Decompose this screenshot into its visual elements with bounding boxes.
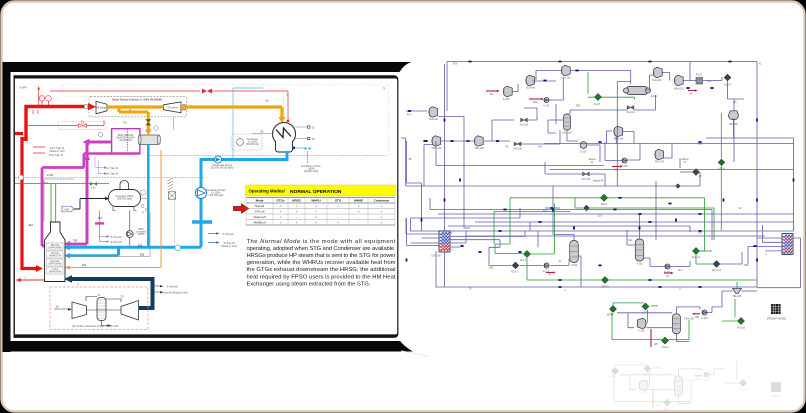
wire set line [613,303,648,323]
wire v102 btms [644,258,666,267]
svg-text:(Stand-by Unit): (Stand-by Unit) [49,150,65,153]
svg-text:✓: ✓ [380,204,382,208]
wire lng out 2 [450,231,466,243]
svg-text:Exchanger using steam extracte: Exchanger using steam extracted from the… [247,281,371,287]
svg-text:TEE-105: TEE-105 [732,296,742,298]
wire mid band 1 [424,172,700,186]
svg-text:TA2: TA2 [538,146,543,149]
svg-text:From Train #2: From Train #2 [104,167,119,170]
description paragraph [247,239,396,288]
cyan makeup line [233,88,263,159]
svg-text:SET-4: SET-4 [601,204,608,206]
svg-text:Adamp: Adamp [681,158,689,161]
pump P-104 [665,264,670,269]
pump P-100 [622,158,627,163]
wire left rail 2 [464,117,470,229]
wire green drop2 [696,255,713,265]
stabilizer column CPrs-100 [672,314,680,334]
svg-text:SPRDSHT: SPRDSHT [771,396,783,398]
header tee (cyan) [192,220,212,223]
GTG compressor [72,302,87,319]
set block SET-8 SET-8 [718,159,725,166]
extraction pipe (orange) [119,107,148,130]
wire to p101 [684,62,697,81]
red bottom blowdown stub [16,279,45,281]
green adjust AGu-2 AGu-2 [661,337,668,344]
HM return riser (magenta) [86,142,89,244]
svg-text:STG: STG [335,199,342,203]
compressor K-100 [503,86,512,96]
GTG dashed box [50,287,148,330]
svg-text:✓: ✓ [315,221,317,225]
STG dashed package box [89,97,187,117]
svg-text:To Train #2: To Train #2 [166,286,178,289]
svg-text:5B: 5B [409,159,412,161]
wire rcy2 out [520,264,544,266]
svg-text:PA2: PA2 [518,143,523,146]
svg-text:MIX-130: MIX-130 [562,78,571,80]
wire left rail 4 [407,141,440,245]
wire contactor feed [548,120,564,133]
expander K-102 K-102 [637,318,646,328]
svg-text:TG6: TG6 [453,64,458,66]
svg-text:(WHRU/HP): (WHRU/HP) [49,271,62,273]
svg-text:PA: PA [506,146,509,149]
svg-text:WHRU: WHRU [311,199,320,203]
wire e100 out [587,145,600,162]
tee splitter TEE-105 TEE-105 [733,288,742,293]
svg-text:VA: VA [611,313,614,316]
compressor TEG-107 TEG-107 [655,149,664,159]
svg-text:(45,000 kW): (45,000 kW) [119,140,132,142]
separator V-102 V-102 [635,239,644,261]
svg-text:LNG-100: LNG-100 [431,256,441,258]
svg-text:2C: 2C [261,132,264,134]
wire contactor btms [567,130,578,141]
svg-text:Mode: Mode [256,199,264,203]
wire rcy2 feed [450,231,538,265]
ghost reflection of stabilizer section [609,361,782,411]
svg-text:2x50%: 2x50% [137,234,144,236]
wire top rail [447,61,757,63]
GTG turbine [121,301,139,321]
svg-text:eff: eff [666,276,669,278]
P130 dashed instrument line [15,177,205,179]
svg-text:✓: ✓ [315,204,317,208]
svg-text:(160,000 kg/h): (160,000 kg/h) [209,195,224,197]
svg-text:K-101: K-101 [543,105,550,107]
svg-text:To Train #3: To Train #3 [110,241,122,244]
HM supply pipe (magenta) [89,141,112,144]
svg-text:✓: ✓ [279,204,281,208]
svg-text:VLV-101: VLV-101 [626,112,635,114]
svg-text:E1B: E1B [138,246,143,248]
wire teg101 drop [733,120,735,138]
LP steam line (orange thin) [147,145,150,249]
svg-text:CPrs-100: CPrs-100 [684,318,694,321]
svg-text:K-102: K-102 [638,331,645,333]
wire valve out [521,130,560,144]
svg-text:HP turbine: HP turbine [96,107,108,110]
svg-text:HRSG: HRSG [292,199,301,203]
svg-text:-: - [338,210,339,214]
condenser stubs [295,127,308,139]
wire contactor ovhd [570,110,627,114]
svg-text:ACo-1: ACo-1 [520,259,527,262]
wire green set8 lower [720,165,722,231]
wire lng feed 2 [422,237,440,239]
wire v100 btms [579,256,582,287]
svg-text:AL2: AL2 [678,269,683,272]
pump P-102 [544,263,549,268]
wire p102 out [551,259,570,265]
svg-text:To Train #2: To Train #2 [222,233,234,236]
svg-text:To APH: To APH [19,87,27,90]
wire mix feed [536,71,561,81]
wire lng feed 1 [406,218,439,234]
svg-text:Condenser: Condenser [374,199,391,203]
svg-text:E-100: E-100 [580,152,587,154]
wire vlv102 out [524,108,537,120]
recycle energy E-100 [580,142,587,149]
svg-text:(compact): (compact) [136,231,146,234]
svg-text:(80,000 kW): (80,000 kW) [246,144,259,146]
svg-text:WR: WR [695,317,699,319]
TEG contactor SEG-100 [564,114,571,130]
pump K-103 [702,310,707,315]
svg-text:(WHRU/HM): (WHRU/HM) [49,247,62,249]
set block ACH-3 ACH-3 [724,74,731,81]
wire lng101 feed3 [748,247,783,264]
wire k100 out [513,84,519,92]
svg-text:Operating Modes/: Operating Modes/ [249,189,286,194]
svg-text:2x100% (90,000 kg/h): 2x100% (90,000 kg/h) [211,167,234,169]
svg-text:HMHE: HMHE [354,199,363,203]
svg-text:RCY-2: RCY-2 [511,271,518,273]
svg-text:W10: W10 [533,102,538,104]
slide frame outer top band [3,62,412,72]
svg-text:AGu-2: AGu-2 [662,346,669,349]
svg-text:✓: ✓ [295,221,297,225]
red PSV valve [202,89,212,94]
utility stream [612,166,620,168]
wire tee out right [742,290,758,292]
green adjust ACo-1 ACo-1 [523,250,530,257]
wire p100 out [627,144,640,161]
svg-text:From Train #2: From Train #2 [50,147,65,150]
main HP steam pipe (red) [26,107,89,142]
feedwater pump [195,187,206,198]
wire ach3 drop [728,81,735,99]
svg-text:Steam Turbine Generator 1x 100: Steam Turbine Generator 1x 100% (40,000k… [112,99,162,102]
deaerator vessel [120,181,129,193]
generator G [181,105,186,110]
GTG shaft [86,297,121,311]
svg-text:HRSGs produce HP steam that is: HRSGs produce HP steam that is sent to t… [247,253,396,259]
separator V-100 V-100 [570,241,579,263]
wire rcy22 out [720,252,742,264]
svg-text:WHL-102: WHL-102 [432,148,442,150]
wire lng101 feed2 [762,225,783,242]
svg-text:LNG-101: LNG-101 [782,254,792,256]
LNG exchanger LNG-100 [439,231,450,252]
svg-text:✓: ✓ [295,204,297,208]
svg-text:Deaerator 2x50%: Deaerator 2x50% [116,195,134,198]
svg-text:TGG-106: TGG-106 [652,80,662,82]
green set SET-1 SET-1 [642,303,649,310]
svg-text:✓: ✓ [380,221,382,225]
BFW green line with valve V-15 [15,184,109,223]
from-train red labels [33,110,45,153]
slide frame left band [3,62,11,352]
svg-text:VLV-100: VLV-100 [513,149,522,151]
modes table [246,198,395,226]
svg-text:-: - [296,215,297,219]
deaerator instruments [140,190,145,195]
wire green set8 upper [720,113,722,159]
svg-text:VLV-102: VLV-102 [520,125,529,127]
svg-text:3P: 3P [312,139,315,141]
wire vlv103 row [545,162,794,186]
compressor MDA-101 MDA-101 [674,75,683,85]
wire mda105 [606,131,634,144]
wire hx out [646,75,654,90]
svg-text:FUL: FUL [407,115,412,117]
svg-text:operating, adopted when STG an: operating, adopted when STG and Condense… [247,246,396,252]
svg-text:the GTGs exhaust downstream th: the GTGs exhaust downstream the HRSG; th… [247,267,396,273]
purple train branches [99,211,107,242]
wire v100 feed [518,251,521,253]
svg-text:(Stand-by Unit): (Stand-by Unit) [221,245,237,248]
svg-text:WP: WP [654,344,658,346]
svg-text:GTGs: GTGs [276,199,284,203]
wire right rail [756,62,758,288]
svg-text:MC: MC [733,102,737,104]
svg-text:MDA-105: MDA-105 [614,138,624,141]
HM drum [139,135,161,145]
svg-text:TEG-100: TEG-100 [474,148,484,150]
economiser return line [68,212,150,257]
to-train branches (blue) [208,234,216,243]
utility stream [546,272,553,274]
utility stream [486,90,497,92]
GTG combustor [97,298,111,327]
svg-text:7A: 7A [469,288,472,291]
svg-text:Gas Turbine Generators 4x33%: Gas Turbine Generators 4x33% - 25MW each [72,325,119,328]
svg-text:1162: 1162 [489,268,495,270]
GTG air inlet [54,308,71,310]
svg-text:From Train #1: From Train #1 [104,172,119,175]
wire interstage [441,140,474,142]
compressor TEG-fuel [526,75,535,85]
wire tee out left [722,291,733,306]
recycle RCY-2 RCY-2 [512,262,519,269]
utility stream [688,90,695,92]
svg-text:TEG-fuel: TEG-fuel [526,88,536,90]
wire col feed [628,313,634,328]
wire green long header [574,198,576,208]
svg-text:(WHRU/HM): (WHRU/HM) [49,263,62,265]
set node A6 [693,169,700,176]
LP turbine [164,102,182,113]
exhaust train branches [153,286,161,292]
wire long lean line [544,82,794,187]
wire k103 out [707,307,723,313]
compressor TEG-100 [474,136,483,146]
wire green to aco12 [700,198,705,251]
spreadsheet model icon [771,304,781,314]
regenerator TEG-101 [728,111,738,120]
svg-text:P-100: P-100 [621,166,628,168]
svg-text:E-101: E-101 [651,96,658,98]
svg-text:✓: ✓ [315,215,317,219]
GTG exhaust duct (navy) [72,279,153,308]
wire set2 down [617,312,672,314]
svg-text:T1B: T1B [73,241,78,243]
wire green drop [588,72,595,97]
svg-text:(40,000 m3/h): (40,000 m3/h) [304,171,319,173]
stream arrow ticks [468,61,471,63]
BFW pump [126,231,133,238]
compressor TEG-fuel [429,107,438,117]
valve VLV-101 [627,106,634,110]
wire mix out [571,70,631,84]
LP feed to HRSG (cyan) [119,223,202,256]
svg-text:VLV-103: VLV-103 [582,179,591,181]
svg-text:-: - [358,221,359,225]
green set SEC-4 SEC-4 [601,276,608,283]
adjust block ACo-5 [594,93,601,100]
wire lng out 3 [450,246,460,248]
wire green to hx [602,97,635,99]
wire riser to fuel compressor [446,62,448,112]
svg-text:✓: ✓ [357,204,359,208]
svg-text:K-100: K-100 [503,99,510,101]
LNG exchanger LNG-101 [782,234,793,255]
expander MDA-105 MDA-105 [614,126,623,136]
svg-text:TG1: TG1 [123,123,128,125]
wire left rail 3 [411,208,521,218]
wire tee feed [736,282,738,288]
wire lng out 4 [444,252,446,287]
wire left tall rail [445,64,453,233]
svg-text:(WHRU/LP): (WHRU/LP) [49,255,61,257]
wire far-right riser [706,138,794,231]
wire lng out 1 [450,231,525,236]
wire a6 [680,171,693,173]
wire p104 out [670,261,690,267]
svg-text:K-103: K-103 [701,318,708,320]
utility wp [650,329,652,347]
svg-text:eff: eff [690,93,693,95]
wire to mix [533,80,557,82]
compressor TGG-106 TGG-106 [653,67,662,77]
green set SET-4 SET-4 [600,194,607,201]
condensate pipe (cyan) [201,151,287,222]
svg-text:TbA: TbA [543,210,548,213]
valve VLV-102 [521,118,528,122]
green adjust ACo-1-2 ACo-1-2 [692,247,699,254]
wire fuel drop [439,116,465,118]
valve VLV-103 [583,172,590,176]
pink dashed header line [62,85,389,156]
wire p101 out [703,77,723,81]
wire v102 feed [627,230,635,245]
wire stub tb [545,207,560,209]
wire mid band 3 [438,213,794,215]
wire p100 feed [436,141,622,166]
wire recycle up [492,120,514,141]
svg-text:TEG-fuel: TEG-fuel [429,119,439,121]
wire green set line [494,198,714,244]
svg-text:V-100: V-100 [571,265,578,267]
svg-text:From Train #1: From Train #1 [49,154,64,157]
wire tgg out [663,73,670,81]
wire set2 up [612,313,689,340]
utility stream [694,313,700,315]
svg-text:To Train #3 (Stand-by Unit): To Train #3 (Stand-by Unit) [160,292,188,295]
svg-text:TEG-107: TEG-107 [655,162,665,164]
svg-text:MDA-101: MDA-101 [674,88,684,91]
wire green bottom rail [527,258,757,280]
condenser circle [273,123,296,153]
wire lng feed 3 [411,242,440,244]
wire v100 ovhd [553,186,574,241]
svg-text:-: - [358,215,359,219]
wire lng101 feed4 [766,250,784,252]
svg-text:L1D: L1D [82,265,87,267]
svg-text:To Train #3: To Train #3 [223,242,235,245]
svg-text:MC2: MC2 [698,144,704,146]
wire lng101 right stubs [757,238,801,288]
svg-text:P 130: P 130 [47,175,54,177]
wire mid band 5 [448,226,690,232]
crossover pipe (orange) [107,105,164,108]
svg-text:11A: 11A [598,215,602,218]
expander WHL-102 [432,136,441,146]
wire col btms [676,334,689,342]
set block SET-2 SET-2 [609,305,616,312]
utility stream [529,98,541,100]
svg-text:2D: 2D [121,297,124,299]
svg-text:V-15: V-15 [91,188,96,190]
wire to valve [484,140,510,142]
slide frame corner streak [401,351,430,357]
svg-text:eff: eff [548,274,551,276]
HM header left (magenta) [42,168,84,247]
wire aco12 out [700,250,713,252]
svg-text:FLR: FLR [576,106,581,108]
svg-text:✓: ✓ [380,215,382,219]
svg-text:SEC-4: SEC-4 [602,286,609,288]
svg-text:The Normal Mode is the mode wi: The Normal Mode is the mode with all equ… [247,239,396,245]
red header stub [15,132,23,135]
wire col ovhd [676,307,700,314]
heat exchanger E-101 [623,87,650,95]
wire teg107 out [663,144,680,169]
svg-text:-: - [338,215,339,219]
svg-text:V-102: V-102 [636,263,643,265]
svg-text:1A: 1A [56,306,59,309]
2C line [252,133,274,135]
wire green to aco1 [495,204,555,254]
svg-text:generation, while the WHRUs re: generation, while the WHRUs recover avai… [247,260,396,266]
recycle RCY-2-2 RCY-2-2 [713,261,720,268]
svg-text:✓: ✓ [337,204,339,208]
wire mid band 6 [411,231,794,236]
svg-text:Normal: Normal [255,204,264,208]
svg-text:✓: ✓ [295,210,297,214]
